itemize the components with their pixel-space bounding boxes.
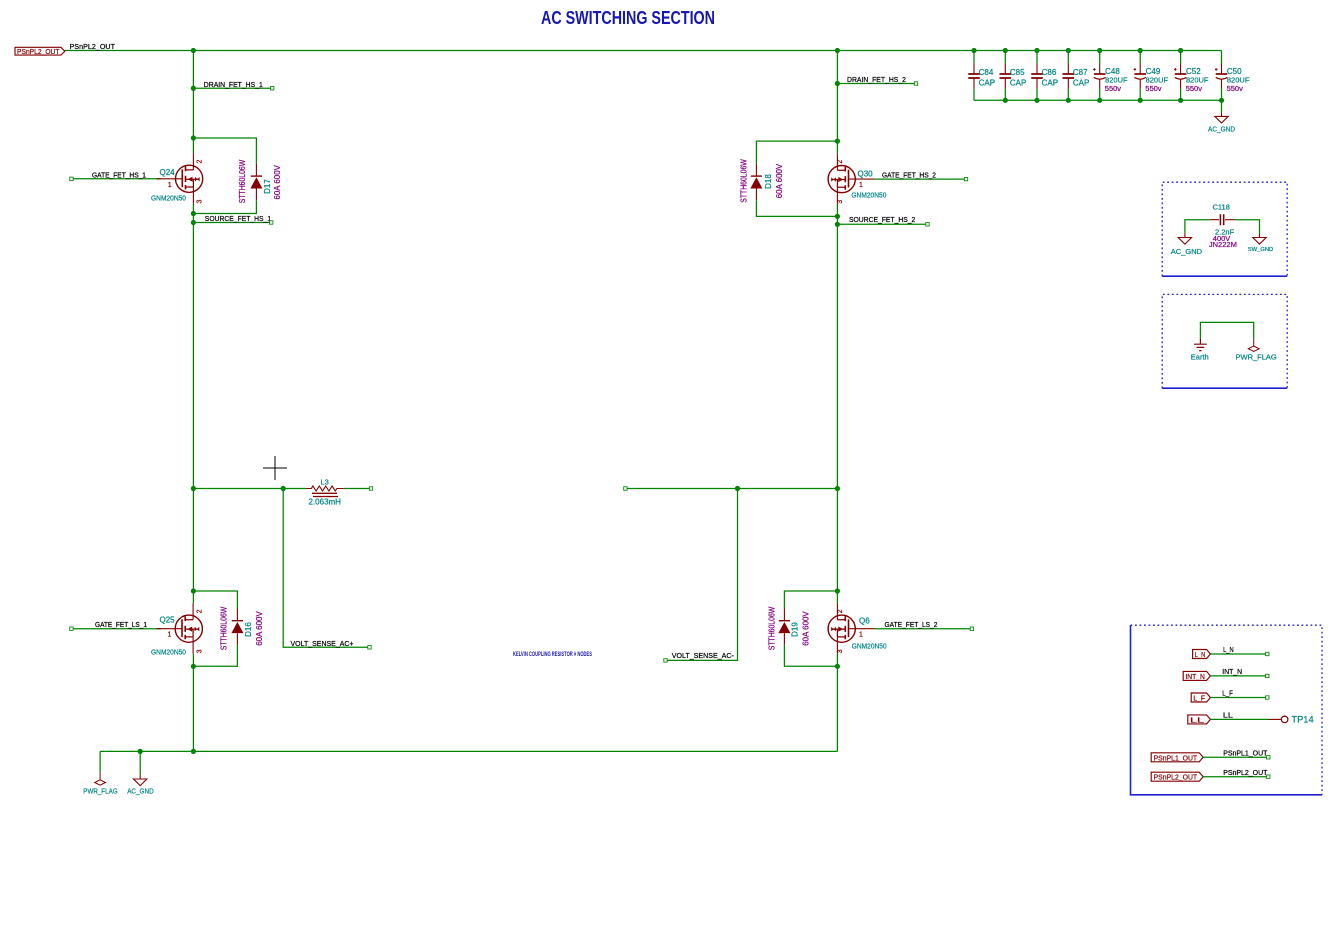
wire (974, 99, 1222, 101)
wire (1203, 776, 1268, 778)
wire (837, 223, 927, 225)
svg-text:1: 1 (168, 632, 172, 639)
svg-text:L_N: L_N (1223, 645, 1234, 654)
svg-text:DRAIN_FET_HS_1: DRAIN_FET_HS_1 (204, 80, 263, 89)
svg-text:GATE_FET_LS_2: GATE_FET_LS_2 (885, 620, 938, 629)
svg-text:TP14: TP14 (1291, 715, 1313, 725)
svg-text:2: 2 (197, 609, 204, 613)
node hierarchical label PSnPL1_OUT (1151, 753, 1203, 762)
svg-text:60A 600V: 60A 600V (255, 611, 264, 646)
crosshair cursor (263, 456, 287, 480)
wire PWR_FLAG stub (99, 751, 101, 772)
wire (1210, 653, 1267, 655)
BOX3 (1131, 625, 1323, 795)
svg-text:STTH60L06W: STTH60L06W (238, 159, 247, 203)
ground AC_GND cap bank (1215, 112, 1228, 123)
wire Q6 diode loop (784, 591, 837, 666)
svg-text:3: 3 (197, 649, 204, 653)
BOX2 (1162, 294, 1287, 388)
node junction dots top rail (191, 48, 196, 53)
wire (192, 51, 194, 752)
svg-text:KELVIN COUPLING RESISTOR # NOD: KELVIN COUPLING RESISTOR # NODES (513, 651, 592, 658)
svg-text:L_N: L_N (1195, 652, 1206, 659)
svg-text:550v: 550v (1145, 84, 1162, 93)
wire AC_GND stub cap bank (1221, 100, 1223, 112)
svg-text:LL: LL (1190, 717, 1204, 724)
svg-text:PWR_FLAG: PWR_FLAG (83, 787, 117, 796)
svg-text:INT_N: INT_N (1222, 667, 1242, 676)
svg-text:L3: L3 (321, 477, 329, 486)
wire (1185, 220, 1260, 234)
svg-text:PWR_FLAG: PWR_FLAG (1236, 353, 1277, 362)
capacitor C84 (968, 64, 980, 89)
svg-text:Q25: Q25 (160, 616, 176, 625)
svg-text:3: 3 (837, 200, 844, 204)
svg-text:1: 1 (859, 182, 863, 189)
svg-text:Q24: Q24 (160, 168, 176, 177)
svg-text:GNM20N50: GNM20N50 (852, 641, 887, 650)
svg-text:AC_GND: AC_GND (1171, 247, 1203, 256)
svg-text:Earth: Earth (1191, 353, 1209, 362)
node hierarchical label L_N (1193, 650, 1211, 659)
node junction dots left vertical (191, 86, 196, 91)
ground AC_GND bottom (134, 775, 147, 786)
node hierarchical label PSnPL2_OUT (15, 47, 65, 56)
wire (836, 51, 838, 752)
transistor Q30 (828, 154, 874, 204)
diode D17 (250, 164, 262, 200)
wire (193, 87, 272, 89)
svg-text:GATE_FET_HS_2: GATE_FET_HS_2 (882, 171, 936, 180)
wire Q30 diode loop (756, 141, 837, 216)
svg-text:AC SWITCHING SECTION: AC SWITCHING SECTION (541, 8, 715, 28)
wire (283, 489, 369, 648)
svg-text:STTH60L06W: STTH60L06W (768, 606, 777, 650)
wire (100, 750, 837, 752)
wire (1210, 718, 1268, 720)
wire (1203, 756, 1268, 758)
transistor Q24 (157, 153, 203, 203)
wire (1210, 675, 1267, 677)
svg-text:L_F: L_F (1193, 696, 1205, 703)
svg-text:D17: D17 (263, 179, 272, 194)
svg-text:1: 1 (168, 182, 172, 189)
svg-text:3: 3 (197, 200, 204, 204)
svg-text:2: 2 (837, 609, 844, 613)
svg-text:PSnPL2_OUT: PSnPL2_OUT (17, 49, 60, 56)
svg-text:INT_N: INT_N (1185, 674, 1205, 681)
svg-text:1: 1 (859, 632, 863, 639)
svg-text:CAP: CAP (979, 79, 995, 88)
svg-text:PSnPL1_OUT: PSnPL1_OUT (1154, 755, 1198, 762)
BOX1 (1162, 182, 1287, 276)
svg-text:PSnPL1_OUT: PSnPL1_OUT (1223, 749, 1268, 758)
capacitor C50 (1215, 64, 1227, 89)
svg-text:C118: C118 (1213, 203, 1230, 212)
test point TP14 (1268, 718, 1281, 720)
inductor L3 (306, 486, 343, 497)
transistor Q6 (828, 603, 874, 653)
node hierarchical label LL (1188, 715, 1211, 724)
svg-text:C85: C85 (1010, 68, 1025, 77)
wire Q25 diode loop (193, 591, 237, 666)
svg-text:SW_GND: SW_GND (1248, 247, 1273, 253)
svg-text:3: 3 (837, 649, 844, 653)
svg-text:PSnPL2_OUT: PSnPL2_OUT (1223, 768, 1268, 777)
svg-text:2: 2 (837, 160, 844, 164)
wire AC_GND stub bottom (139, 751, 141, 774)
wire (65, 50, 1222, 52)
svg-text:D19: D19 (791, 622, 800, 637)
svg-text:C84: C84 (979, 68, 994, 77)
svg-text:CAP: CAP (1073, 79, 1089, 88)
svg-text:D16: D16 (244, 622, 253, 637)
svg-text:2: 2 (197, 160, 204, 164)
svg-text:2.063mH: 2.063mH (309, 498, 342, 507)
svg-text:STTH60L06W: STTH60L06W (739, 159, 748, 203)
node junction dots cap rail (1003, 98, 1008, 103)
svg-text:AC_GND: AC_GND (127, 787, 154, 796)
ground AC_GND in box (1178, 233, 1191, 244)
svg-text:VOLT_SENSE_AC-: VOLT_SENSE_AC- (672, 651, 734, 660)
svg-text:CAP: CAP (1010, 79, 1026, 88)
svg-text:PSnPL2_OUT: PSnPL2_OUT (70, 42, 116, 51)
node hierarchical label INT_N (1183, 671, 1210, 680)
capacitor C86 (1031, 64, 1043, 89)
ground SW_GND in box (1253, 233, 1266, 244)
wire cap stubs (974, 51, 1222, 101)
diode D16 (231, 608, 243, 644)
capacitor C48 (1093, 64, 1105, 89)
svg-text:GATE_FET_LS_1: GATE_FET_LS_1 (95, 620, 147, 629)
svg-text:STTH60L06W: STTH60L06W (220, 606, 229, 650)
capacitor C87 (1063, 64, 1075, 89)
wire (1200, 322, 1253, 338)
node hierarchical label L_F (1191, 693, 1210, 702)
wire Q24 diode loop (193, 138, 256, 214)
wire (193, 222, 271, 224)
diode D18 (750, 164, 762, 200)
wire (193, 488, 371, 490)
svg-text:C87: C87 (1073, 68, 1088, 77)
capacitor C118 (1220, 214, 1223, 225)
diode D19 (778, 608, 790, 644)
svg-text:LL: LL (1223, 711, 1233, 720)
svg-text:GNM20N50: GNM20N50 (151, 648, 186, 657)
dashed frame C118 box (1162, 182, 1287, 276)
wire (71, 628, 161, 630)
node junction dots mid and bottom (281, 486, 286, 491)
capacitor C52 (1174, 64, 1186, 89)
wire (666, 489, 738, 661)
node hierarchical label PSnPL2_OUT (1151, 772, 1203, 781)
svg-text:L_F: L_F (1222, 689, 1233, 698)
svg-text:550v: 550v (1105, 84, 1122, 93)
svg-text:PSnPL2_OUT: PSnPL2_OUT (1154, 775, 1198, 782)
svg-text:60A 600V: 60A 600V (775, 163, 784, 198)
svg-text:Q30: Q30 (858, 169, 874, 178)
capacitor C85 (1000, 64, 1012, 89)
svg-text:550v: 550v (1227, 84, 1244, 93)
svg-text:AC_GND: AC_GND (1208, 125, 1235, 134)
svg-text:SOURCE_FET_HS_2: SOURCE_FET_HS_2 (849, 215, 915, 224)
wire (1210, 697, 1267, 699)
dashed frame Earth box (1162, 294, 1287, 388)
svg-text:550v: 550v (1186, 84, 1203, 93)
svg-text:CAP: CAP (1042, 79, 1058, 88)
svg-text:VOLT_SENSE_AC+: VOLT_SENSE_AC+ (291, 639, 355, 648)
svg-text:60A 600V: 60A 600V (802, 611, 811, 646)
wire (625, 488, 837, 490)
wire (874, 628, 972, 630)
ground Earth (1194, 339, 1207, 351)
svg-text:GNM20N50: GNM20N50 (151, 194, 186, 203)
wire (874, 178, 966, 180)
ENDPOINT SQUARES (70, 82, 974, 662)
power flag PWR_FLAG in box (1248, 339, 1259, 352)
svg-text:DRAIN_FET_HS_2: DRAIN_FET_HS_2 (847, 75, 906, 84)
svg-text:C86: C86 (1042, 68, 1057, 77)
svg-text:GNM20N50: GNM20N50 (851, 190, 886, 199)
dashed frame connector labels box (1131, 625, 1323, 795)
svg-text:60A 600V: 60A 600V (273, 164, 282, 199)
capacitor C49 (1134, 64, 1146, 89)
transistor Q25 (157, 603, 203, 653)
svg-text:Q6: Q6 (859, 617, 870, 626)
wire (71, 178, 161, 180)
svg-text:GATE_FET_HS_1: GATE_FET_HS_1 (92, 170, 146, 179)
node junction dots right vertical (835, 81, 840, 86)
power flag PWR_FLAG bottom (95, 773, 106, 786)
svg-text:D18: D18 (764, 174, 773, 189)
svg-text:SOURCE_FET_HS_1: SOURCE_FET_HS_1 (205, 214, 271, 223)
wire (837, 83, 916, 85)
svg-text:JN222M: JN222M (1209, 240, 1237, 249)
